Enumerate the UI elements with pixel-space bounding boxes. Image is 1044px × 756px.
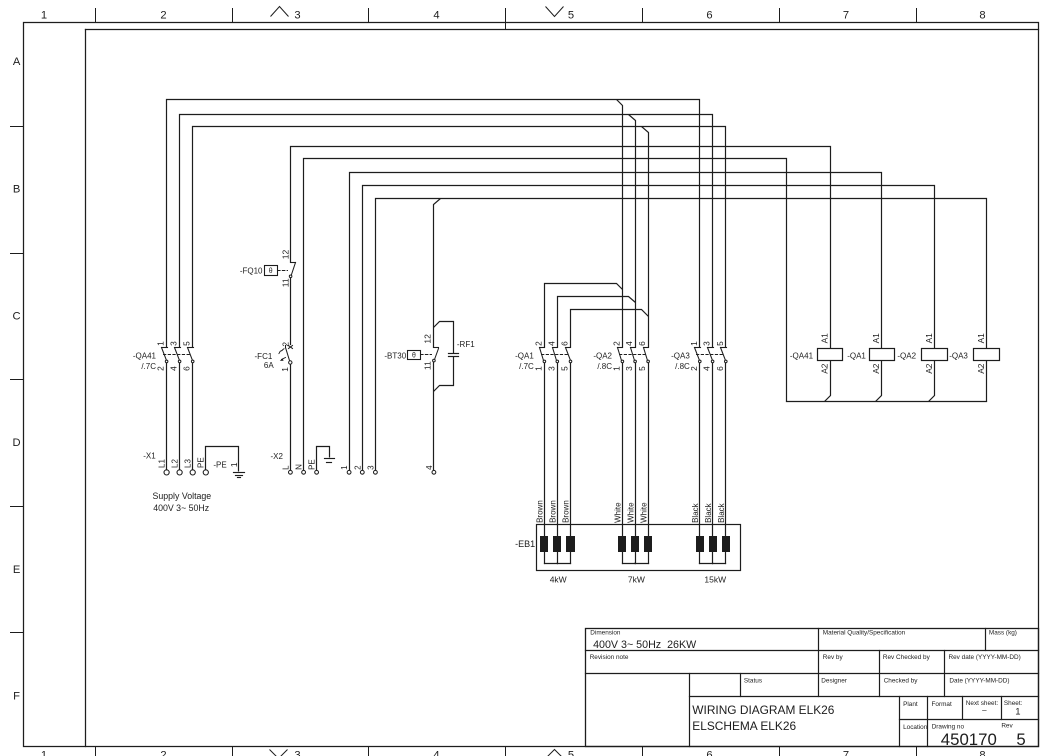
svg-text:White: White — [614, 502, 623, 523]
svg-text:4: 4 — [425, 465, 434, 470]
wire star-point bus — [700, 563, 726, 565]
svg-text:6A: 6A — [264, 361, 274, 370]
svg-text:400V 3~ 50Hz 26KW: 400V 3~ 50Hz 26KW — [593, 639, 697, 651]
svg-text:-X1: -X1 — [143, 452, 156, 461]
svg-text:-RF1: -RF1 — [457, 340, 475, 349]
wire FC1 lower contact down to X2:L — [290, 365, 292, 471]
FQ10 actuator dashed link — [278, 270, 288, 272]
svg-text:6: 6 — [637, 341, 647, 346]
svg-text:Material Quality/Specification: Material Quality/Specification — [823, 629, 906, 636]
title block — [586, 629, 1039, 750]
wire L2 branch dropping to QA2 pole 2 — [629, 115, 636, 348]
svg-text:A1: A1 — [820, 333, 830, 344]
svg-text:450170: 450170 — [941, 730, 997, 749]
wire QA41 pole 2 to X1 terminal — [179, 363, 181, 470]
svg-text:2: 2 — [533, 341, 543, 346]
wire element to star point — [570, 552, 572, 564]
terminal strip X2 — [289, 470, 436, 474]
svg-text:PE: PE — [308, 459, 317, 470]
svg-text:2: 2 — [281, 342, 291, 347]
svg-text:2: 2 — [353, 465, 362, 470]
wire L2 bus from QA41 pole 2 up across to QA3 pole 2 — [180, 115, 713, 348]
wire L3 feed from QA1 pole 3 joining QA2 branch — [571, 310, 649, 348]
svg-text:-QA2: -QA2 — [897, 351, 916, 360]
svg-text:3: 3 — [546, 366, 556, 371]
wire element to star point — [712, 552, 714, 564]
svg-text:A1: A1 — [976, 333, 986, 344]
heater element EB1 (White) — [645, 537, 652, 552]
svg-text:A: A — [13, 56, 21, 68]
svg-text:1: 1 — [340, 465, 349, 470]
wire element to star point — [544, 552, 546, 564]
svg-text:Black: Black — [717, 502, 726, 523]
svg-text:Mass (kg): Mass (kg) — [989, 629, 1017, 636]
wire QA1 pole 2 down to heater element — [557, 363, 559, 537]
svg-text:/.8C: /.8C — [675, 362, 690, 371]
FQ10 actuator box with theta — [265, 266, 278, 276]
svg-text:Black: Black — [691, 502, 700, 523]
svg-text:Brown: Brown — [536, 500, 545, 523]
svg-text:6: 6 — [706, 750, 712, 756]
svg-text:4: 4 — [702, 366, 712, 371]
svg-text:4: 4 — [433, 750, 439, 756]
svg-text:Brown: Brown — [562, 500, 571, 523]
svg-text:1: 1 — [156, 341, 166, 346]
svg-text:2: 2 — [156, 366, 166, 371]
wire element to star point — [635, 552, 637, 564]
heater element EB1 (Black) — [697, 537, 704, 552]
wire X1 PE to earth — [206, 447, 239, 472]
contactor coil -QA41 — [818, 349, 843, 361]
circuit breaker FC1 contact — [279, 346, 293, 365]
svg-text:A2: A2 — [871, 363, 881, 374]
svg-text:Brown: Brown — [549, 500, 558, 523]
wire bypass loop through RF1 — [434, 322, 454, 354]
svg-text:L: L — [281, 465, 290, 470]
wire QA2 pole 3 down to heater element — [648, 363, 650, 537]
svg-text:1: 1 — [689, 341, 699, 346]
wire QA41 pole 3 to X1 terminal — [192, 363, 194, 470]
heater element EB1 (Brown) — [567, 537, 575, 552]
svg-text:6: 6 — [715, 366, 725, 371]
svg-text:11: 11 — [423, 361, 433, 370]
svg-text:2: 2 — [160, 10, 166, 22]
contactor QA41 3-pole contact — [162, 348, 195, 363]
svg-text:-BT30: -BT30 — [384, 352, 406, 361]
svg-text:-EB1: -EB1 — [515, 539, 535, 549]
svg-text:3: 3 — [702, 341, 712, 346]
wire coil return rail — [787, 401, 987, 403]
contactor coil -QA1 — [870, 349, 895, 361]
svg-text:Revision note: Revision note — [590, 654, 629, 661]
svg-text:-X2: -X2 — [271, 452, 284, 461]
svg-text:F: F — [13, 691, 20, 703]
wire L1 bus from QA41 pole 1 up across to QA3 pole 1 — [167, 100, 700, 348]
svg-text:White: White — [626, 502, 635, 523]
svg-text:2: 2 — [611, 341, 621, 346]
wire L1 feed from QA1 pole 1 joining QA2 branch — [545, 284, 623, 348]
wire QA3 pole 3 down to heater element — [725, 363, 727, 537]
wire neutral N: X2:N up to bus 5 and down to coil return rail — [304, 159, 787, 471]
heater element EB1 (White) — [619, 537, 626, 552]
svg-text:A1: A1 — [871, 333, 881, 344]
svg-text:2: 2 — [689, 366, 699, 371]
svg-text:A1: A1 — [924, 333, 934, 344]
svg-text:Rev date (YYYY-MM-DD): Rev date (YYYY-MM-DD) — [949, 654, 1021, 661]
svg-text:6: 6 — [560, 341, 570, 346]
heater element EB1 (Black) — [710, 537, 717, 552]
svg-text:1: 1 — [533, 366, 543, 371]
wire element to star point — [557, 552, 559, 564]
wire control 2: X2:2 up to bus 7 over to QA2 coil A1 — [363, 186, 935, 471]
svg-text:Plant: Plant — [903, 701, 918, 708]
svg-text:WIRING DIAGRAM ELK26: WIRING DIAGRAM ELK26 — [692, 703, 834, 717]
svg-text:White: White — [639, 502, 648, 523]
svg-text:5: 5 — [182, 341, 192, 346]
svg-text:3: 3 — [624, 366, 634, 371]
ground at X2 PE — [325, 459, 335, 463]
wire QA1 pole 1 down to heater element — [544, 363, 546, 537]
wire control 3: X2:3 up to bus 8 over to QA3 coil A1 — [376, 199, 987, 471]
wire L1 branch dropping to QA2 pole 1 — [617, 100, 623, 348]
svg-text:5: 5 — [568, 10, 574, 22]
svg-text:-QA3: -QA3 — [949, 351, 968, 360]
svg-text:3: 3 — [366, 465, 375, 470]
svg-text:4kW: 4kW — [550, 574, 567, 584]
heater element EB1 (White) — [632, 537, 639, 552]
svg-text:4: 4 — [433, 10, 439, 22]
wire control 1: X2:1 up to bus 6 over to QA1 coil A1 — [350, 173, 882, 471]
wire element to star point — [648, 552, 650, 564]
svg-text:-QA2: -QA2 — [593, 351, 612, 360]
svg-text:1: 1 — [41, 10, 47, 22]
wire control phase: FQ10 top to bus 4 over to QA41 coil A1 — [291, 147, 831, 349]
wire segment FQ10 to FC1 — [290, 278, 292, 345]
svg-text:5: 5 — [568, 750, 574, 756]
contactor QA3 3-pole contact — [695, 348, 728, 363]
svg-text:A2: A2 — [924, 363, 934, 374]
svg-text:Supply Voltage: Supply Voltage — [153, 491, 212, 501]
thermostat BT30 NC contact — [433, 348, 439, 362]
BT30 actuator dashed link — [421, 354, 432, 356]
heater element EB1 (Brown) — [554, 537, 561, 552]
svg-text:1: 1 — [280, 367, 290, 372]
svg-text:ELSCHEMA ELK26: ELSCHEMA ELK26 — [692, 719, 796, 733]
ground at X1 PE — [234, 473, 245, 478]
wire L2 feed from QA1 pole 2 joining QA2 branch — [558, 297, 636, 348]
wire -QA41 coil A2 to return rail — [825, 361, 831, 402]
svg-text:7: 7 — [843, 10, 849, 22]
svg-text:1: 1 — [611, 366, 621, 371]
svg-text:5: 5 — [1016, 730, 1025, 749]
svg-text:L1: L1 — [157, 459, 166, 468]
wire element to star point — [699, 552, 701, 564]
node star point — [634, 563, 636, 565]
wire QA3 pole 2 down to heater element — [712, 363, 714, 537]
contactor coil -QA3 — [974, 349, 1000, 361]
svg-text:8: 8 — [979, 750, 985, 756]
svg-text:C: C — [13, 311, 21, 323]
svg-text:8: 8 — [979, 10, 985, 22]
svg-text:Location: Location — [903, 724, 928, 731]
svg-text:5: 5 — [637, 366, 647, 371]
contactor QA1 3-pole contact — [540, 348, 572, 363]
svg-text:/.7C: /.7C — [141, 362, 156, 371]
svg-text:12: 12 — [423, 334, 433, 344]
wire QA2 pole 2 down to heater element — [635, 363, 637, 537]
heater element EB1 (Brown) — [541, 537, 548, 552]
svg-text:-QA41: -QA41 — [133, 351, 157, 360]
svg-text:Designer: Designer — [821, 677, 847, 684]
svg-text:/.8C: /.8C — [597, 362, 612, 371]
svg-text:5: 5 — [560, 366, 570, 371]
svg-text:Date (YYYY-MM-DD): Date (YYYY-MM-DD) — [949, 677, 1009, 684]
svg-text:-QA1: -QA1 — [515, 351, 534, 360]
svg-text:1: 1 — [41, 750, 47, 756]
svg-text:B: B — [13, 184, 20, 196]
wire element to star point — [622, 552, 624, 564]
svg-text:E: E — [13, 564, 20, 576]
svg-text:400V 3~ 50Hz: 400V 3~ 50Hz — [153, 503, 209, 513]
svg-text:Rev: Rev — [1001, 723, 1013, 730]
wire QA1 pole 3 down to heater element — [570, 363, 572, 537]
wire X2 PE to earth — [317, 447, 330, 471]
svg-text:3: 3 — [294, 10, 300, 22]
svg-text:Status: Status — [744, 677, 762, 684]
svg-text:Checked by: Checked by — [884, 677, 919, 684]
BT30 actuator box with theta — [408, 351, 421, 360]
contactor QA2 3-pole contact — [618, 348, 650, 363]
wire L3 bus from QA41 pole 3 up across to QA3 pole 3 — [193, 127, 726, 348]
svg-text:7: 7 — [843, 750, 849, 756]
wire L3 branch dropping to QA2 pole 3 — [642, 127, 649, 348]
svg-text:Format: Format — [932, 701, 952, 708]
svg-text:-QA1: -QA1 — [847, 351, 866, 360]
svg-text:-FQ10: -FQ10 — [240, 267, 263, 276]
wire QA41 pole 1 to X1 terminal — [166, 363, 168, 470]
pressure switch FQ10 NC contact — [289, 263, 295, 278]
svg-text:6: 6 — [706, 10, 712, 22]
wire QA2 pole 1 down to heater element — [622, 363, 624, 537]
svg-text:1: 1 — [1015, 706, 1020, 717]
svg-text:–: – — [982, 706, 987, 715]
svg-text:PE: PE — [197, 457, 206, 468]
contactor coil -QA2 — [922, 349, 948, 361]
svg-text:1: 1 — [229, 462, 239, 467]
wire -QA2 coil A2 to return rail — [929, 361, 935, 402]
svg-text:D: D — [13, 437, 21, 449]
svg-text:6: 6 — [182, 366, 192, 371]
terminal strip X1 — [164, 470, 208, 475]
heater element EB1 (Black) — [723, 537, 730, 552]
svg-text:N: N — [295, 464, 304, 470]
svg-text:4: 4 — [624, 341, 634, 346]
wire -QA3 coil A2 to return rail — [986, 361, 988, 402]
svg-text:4: 4 — [546, 341, 556, 346]
svg-text:A2: A2 — [976, 363, 986, 374]
svg-text:θ: θ — [269, 268, 273, 275]
svg-text:11: 11 — [280, 278, 290, 287]
wire BT30 lower contact down to X2:4 — [433, 362, 435, 471]
svg-text:2: 2 — [160, 750, 166, 756]
svg-text:-FC1: -FC1 — [255, 352, 273, 361]
svg-text:Dimension: Dimension — [590, 629, 621, 636]
heater bank EB1 enclosure — [537, 525, 741, 571]
node star point — [556, 563, 558, 565]
wire QA3 pole 1 down to heater element — [699, 363, 701, 537]
svg-text:-QA41: -QA41 — [790, 351, 814, 360]
svg-text:Black: Black — [704, 502, 713, 523]
wire branch from bus 8 down to BT30 — [434, 199, 441, 348]
svg-text:θ: θ — [412, 352, 416, 359]
svg-text:4: 4 — [169, 366, 179, 371]
wire element to star point — [725, 552, 727, 564]
svg-text:15kW: 15kW — [704, 574, 726, 584]
svg-text:-PE: -PE — [213, 460, 226, 469]
svg-text:Rev by: Rev by — [823, 654, 844, 661]
svg-text:Rev Checked by: Rev Checked by — [883, 654, 931, 661]
svg-text:7kW: 7kW — [628, 574, 645, 584]
svg-text:/.7C: /.7C — [519, 362, 534, 371]
node star point — [712, 563, 714, 565]
wire star-point bus — [545, 563, 571, 565]
svg-text:-QA3: -QA3 — [671, 351, 690, 360]
capacitor RF1 — [449, 353, 459, 355]
wire star-point bus — [623, 563, 649, 565]
svg-text:5: 5 — [715, 341, 725, 346]
wire -QA1 coil A2 to return rail — [876, 361, 882, 402]
svg-text:L2: L2 — [170, 459, 179, 468]
svg-text:L3: L3 — [184, 459, 193, 468]
svg-text:A2: A2 — [820, 363, 830, 374]
svg-text:3: 3 — [294, 750, 300, 756]
svg-text:3: 3 — [169, 341, 179, 346]
svg-text:12: 12 — [280, 250, 290, 260]
